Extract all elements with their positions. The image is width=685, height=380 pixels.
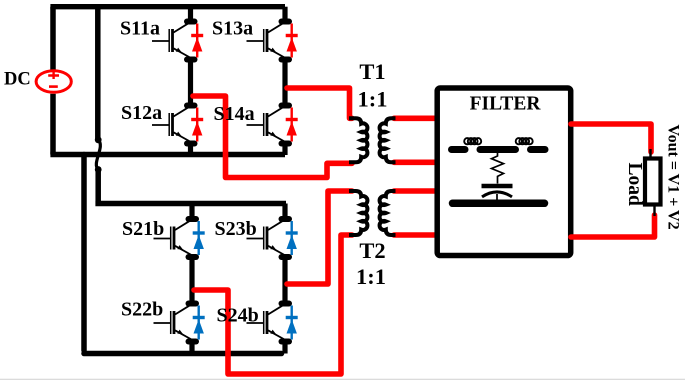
antiparallel diode of S11a bbox=[191, 24, 203, 58]
junction dot: crossover start bbox=[95, 136, 102, 143]
wire: top bridge left leg collector stub bbox=[188, 7, 193, 22]
filter block box bbox=[437, 88, 571, 256]
IGBT switch S14a bbox=[247, 106, 290, 144]
filter top bus bar right segment bbox=[531, 146, 546, 153]
IGBT switch S22b bbox=[154, 304, 197, 342]
filter capacitor top plate bbox=[482, 184, 513, 189]
svg-text:S22b: S22b bbox=[121, 298, 163, 320]
svg-text:S11a: S11a bbox=[120, 18, 160, 40]
DC source plus sign bbox=[48, 72, 59, 79]
load resistor box bbox=[645, 159, 661, 205]
IGBT switch S23b bbox=[247, 219, 290, 257]
wire: bottom bridge left leg midpoint (S21b emitter to S22b collector) bbox=[189, 257, 194, 304]
wire: DC+ top rail bbox=[50, 4, 285, 9]
filter inductor L2 (right coil loops) bbox=[516, 138, 533, 144]
wire: top bridge left leg emitter stub to negative rail bbox=[188, 144, 193, 156]
filter top bus bar middle segment bbox=[480, 146, 516, 153]
svg-text:FILTER: FILTER bbox=[470, 93, 542, 114]
wire: DC source positive branch (top) bbox=[50, 7, 56, 70]
wire: top bridge right leg midpoint to T1 primary top bbox=[287, 88, 352, 118]
wire: DC- feed from negative rail down to bottom bridge bottom rail bbox=[84, 155, 282, 354]
wire: T1 secondary bottom to filter bbox=[394, 160, 436, 166]
wire: top bridge right leg emitter stub to negative rail bbox=[282, 144, 287, 156]
wire: top bridge left leg midpoint (S11a emitter to S12a collector) bbox=[188, 60, 193, 106]
filter bottom bus bar bbox=[453, 200, 545, 208]
svg-text:S13a: S13a bbox=[212, 18, 253, 40]
antiparallel diode of S14a bbox=[286, 108, 298, 142]
junction dot: crossover end bbox=[95, 166, 102, 173]
svg-text:T1: T1 bbox=[359, 59, 385, 84]
antiparallel diode of S22b bbox=[193, 306, 205, 340]
svg-text:S12a: S12a bbox=[121, 102, 162, 124]
svg-text:1:1: 1:1 bbox=[356, 264, 386, 289]
antiparallel diode of S24b bbox=[286, 306, 298, 340]
wire: bottom bridge right leg midpoint to T2 primary top bbox=[287, 191, 352, 284]
svg-text:T2: T2 bbox=[359, 238, 385, 263]
transformer T2 windings bbox=[349, 191, 396, 235]
wire: DC source negative branch (bottom) bbox=[50, 94, 56, 155]
svg-text:Load: Load bbox=[624, 163, 645, 207]
svg-text:S21b: S21b bbox=[122, 218, 164, 240]
filter top bus bar left segment bbox=[452, 146, 466, 153]
wire: bottom bridge left leg collector stub bbox=[189, 204, 194, 220]
filter inductor L1 (left coil loops) bbox=[464, 138, 481, 144]
wire: top bridge right leg collector stub bbox=[282, 7, 287, 22]
wire: bottom bridge left leg emitter stub to bottom rail bbox=[189, 342, 194, 354]
filter capacitor bottom curved plate bbox=[482, 192, 512, 197]
filter capacitor lead to bottom bus bbox=[496, 194, 498, 201]
DC voltage source symbol bbox=[36, 71, 71, 93]
svg-text:S24b: S24b bbox=[217, 304, 259, 326]
wire: thin gray figure bottom border bbox=[0, 378, 685, 380]
wire: bottom bridge right leg midpoint (S23b emitter to S24b collector) bbox=[282, 257, 287, 304]
wire: bottom bridge right leg emitter stub to bottom rail bbox=[282, 342, 287, 354]
IGBT switch S11a bbox=[152, 22, 195, 60]
antiparallel diode of S13a bbox=[286, 24, 298, 58]
wire: crossover hop over negative rail bbox=[96, 140, 100, 170]
svg-text:1:1: 1:1 bbox=[358, 87, 388, 112]
wire: load top thin lead bbox=[649, 149, 651, 160]
antiparallel diode of S21b bbox=[193, 221, 205, 255]
wire: load bottom thin lead bbox=[653, 203, 655, 216]
wire: bottom bridge right leg collector stub bbox=[282, 204, 287, 220]
wire: top bridge left leg midpoint to T1 primary bottom bbox=[193, 96, 352, 178]
wire: T2 secondary top to filter bbox=[394, 188, 436, 194]
wire: bottom bridge left leg midpoint to T2 primary bottom bbox=[194, 235, 352, 374]
filter damping resistor zigzag bbox=[492, 153, 504, 184]
wire: DC+ feed to bottom bridge (upper segment) bbox=[95, 7, 101, 139]
wire: filter output bottom to load bbox=[571, 215, 655, 237]
wire: filter output top to load bbox=[571, 124, 651, 152]
IGBT switch S12a bbox=[152, 106, 195, 144]
antiparallel diode of S23b bbox=[286, 221, 298, 255]
transformer T1 windings bbox=[349, 118, 396, 162]
svg-text:Vout = V1 + V2: Vout = V1 + V2 bbox=[665, 125, 682, 230]
svg-text:DC: DC bbox=[4, 70, 31, 90]
IGBT switch S13a bbox=[247, 22, 290, 60]
wire: T2 secondary bottom to filter bbox=[394, 232, 436, 238]
wire: top bridge right leg midpoint (S13a emitter to S14a collector) bbox=[282, 60, 287, 106]
IGBT switch S21b bbox=[154, 219, 197, 257]
wire: DC+ feed to bottom bridge (lower segment) and bottom bridge top rail bbox=[95, 170, 286, 204]
wire: T1 secondary top to filter bbox=[394, 116, 436, 122]
svg-text:S14a: S14a bbox=[214, 103, 255, 125]
wire: negative rail of top H-bridge bbox=[50, 152, 285, 158]
DC source minus sign bbox=[49, 85, 58, 88]
svg-text:S23b: S23b bbox=[215, 218, 257, 240]
antiparallel diode of S12a bbox=[191, 108, 203, 142]
IGBT switch S24b bbox=[247, 304, 290, 342]
